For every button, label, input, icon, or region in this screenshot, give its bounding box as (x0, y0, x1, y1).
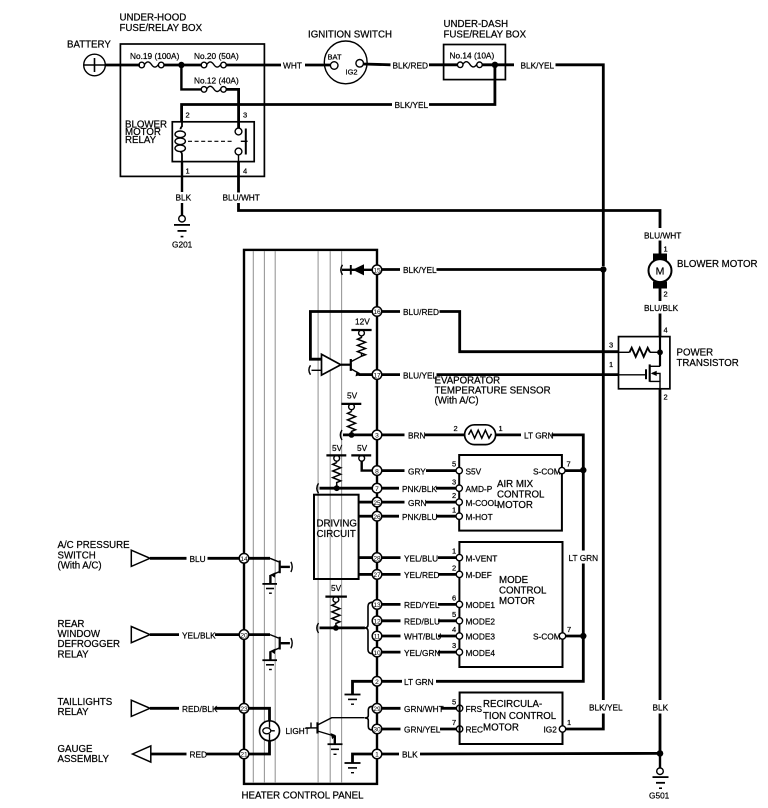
wire fuse12 to relay pin 3 (226, 89, 238, 128)
svg-text:5V: 5V (347, 391, 358, 401)
svg-text:FUSE/RELAY BOX: FUSE/RELAY BOX (444, 30, 527, 41)
svg-text:POWER: POWER (677, 348, 714, 359)
resistor Rmode (332, 604, 340, 628)
wire pin2 to ground (353, 681, 373, 694)
svg-text:BLK: BLK (176, 193, 192, 203)
wire battery to under-hood box (105, 64, 140, 67)
wire GRY pin8 to S5V (382, 466, 457, 476)
svg-text:No.14 (10A): No.14 (10A) (450, 50, 495, 60)
wire GRN/WHT pin29 to FRS (382, 704, 457, 714)
svg-text:12V: 12V (355, 317, 370, 327)
relay dashed link (188, 140, 234, 142)
wire LT GRN vertical down (569, 470, 599, 635)
svg-text:1: 1 (499, 424, 503, 433)
svg-text:YEL/GRN: YEL/GRN (404, 648, 440, 658)
svg-text:12: 12 (373, 619, 381, 626)
svg-text:23: 23 (240, 706, 248, 713)
wire YEL/RED driving to pin27 to M-DEF (359, 570, 457, 580)
node Rmode (333, 625, 339, 631)
taillights relay label (58, 697, 113, 718)
wire LT GRN sensor to vertical (496, 431, 584, 471)
svg-text:27: 27 (373, 572, 381, 579)
svg-text:ASSEMBLY: ASSEMBLY (58, 754, 110, 765)
wire BLU/RED pin16 to power transistor pin3 (382, 307, 619, 352)
svg-text:GRY: GRY (408, 466, 426, 476)
pin 13 (372, 600, 382, 610)
heater control panel box (242, 250, 378, 802)
ground for pin 1 (345, 763, 361, 773)
svg-text:GRN: GRN (408, 498, 426, 508)
wire RED to pin 21 (151, 750, 240, 760)
svg-text:1: 1 (609, 360, 613, 369)
wire PNK/BLK pin7 to AMD-P (382, 484, 457, 494)
svg-text:PNK/BLK: PNK/BLK (402, 484, 438, 494)
svg-text:11: 11 (374, 634, 381, 641)
fuse No.12 (40A) (194, 76, 239, 93)
svg-text:RELAY: RELAY (58, 707, 90, 718)
svg-text:1: 1 (452, 505, 456, 514)
svg-text:3: 3 (243, 111, 247, 120)
svg-text:IGNITION SWITCH: IGNITION SWITCH (308, 30, 392, 41)
resistor R7 (333, 463, 341, 488)
svg-text:2: 2 (664, 393, 668, 402)
wire BLK/YEL under-dash to right vertical (482, 60, 603, 266)
svg-text:BLK: BLK (653, 703, 669, 713)
svg-text:G201: G201 (172, 240, 193, 250)
svg-text:S-COM: S-COM (533, 632, 561, 642)
svg-text:YEL/BLK: YEL/BLK (182, 630, 216, 640)
recirc pin REC (452, 718, 483, 735)
svg-text:5V: 5V (332, 443, 343, 453)
fuse No.19 (100A) (130, 51, 180, 68)
wire BLU/WHT label above blower motor (644, 231, 681, 255)
svg-text:BRN: BRN (408, 431, 426, 441)
air mix pin M-HOT (452, 505, 493, 522)
svg-text:WHT: WHT (283, 61, 302, 71)
svg-text:M-VENT: M-VENT (466, 553, 498, 563)
wire BLU/BLK motor to power transistor (644, 289, 679, 337)
svg-text:CONTROL: CONTROL (497, 490, 545, 501)
node S-COM / LT GRN vertical (580, 467, 586, 473)
svg-text:UNDER-HOOD: UNDER-HOOD (120, 13, 187, 24)
pin 8 (372, 466, 382, 476)
air mix pin M-COOL (452, 491, 499, 508)
svg-text:2: 2 (452, 491, 456, 500)
svg-text:MOTOR: MOTOR (483, 723, 519, 734)
svg-text:21: 21 (240, 752, 248, 759)
svg-text:BLU/BLK: BLU/BLK (644, 303, 679, 313)
svg-text:M: M (656, 265, 665, 277)
wire GRN/YEL pin30 to REC (382, 725, 457, 735)
light bulb (260, 721, 310, 741)
5V supply above pin 3 (341, 391, 361, 412)
svg-text:14: 14 (240, 556, 248, 563)
svg-text:TRANSISTOR: TRANSISTOR (677, 358, 739, 369)
svg-text:BLK/RED: BLK/RED (393, 60, 429, 70)
battery (67, 40, 111, 76)
bracket joining pins 13 12 11 10 (365, 602, 373, 654)
svg-text:BLK/YEL: BLK/YEL (395, 100, 429, 110)
under-dash fuse/relay box (444, 19, 527, 80)
svg-text:7: 7 (452, 718, 456, 727)
wire YEL/BLU driving to pin28 to M-VENT (359, 553, 457, 563)
node BLK/YEL junction pin15 line (600, 266, 606, 272)
svg-text:GRN/YEL: GRN/YEL (404, 725, 441, 735)
svg-text:BLU/RED: BLU/RED (403, 307, 439, 317)
mode pin S-COM (533, 625, 583, 642)
panel pin strip vertical (376, 250, 378, 784)
pin 15 (372, 265, 382, 275)
diode at pin 15 (341, 264, 373, 275)
wire BRN pin3 to sensor (382, 431, 465, 441)
wire BLK/YEL pin15 to right vertical (382, 265, 604, 275)
pin 12 (372, 616, 382, 626)
svg-text:FRS: FRS (466, 704, 483, 714)
mode control motor box (459, 542, 562, 667)
svg-text:5: 5 (452, 697, 456, 706)
svg-text:30: 30 (373, 727, 381, 734)
svg-text:BLK/YEL: BLK/YEL (589, 703, 623, 713)
svg-text:MODE4: MODE4 (466, 648, 496, 658)
mosfet inside power transistor (619, 364, 661, 388)
svg-text:3: 3 (452, 477, 456, 486)
A/C pressure switch arrow (131, 550, 150, 566)
panel hatch lines (253, 251, 341, 783)
svg-text:(With A/C): (With A/C) (435, 396, 479, 407)
ignition switch (308, 30, 392, 84)
air mix pin S5V (452, 460, 482, 477)
svg-text:AMD-P: AMD-P (466, 484, 493, 494)
svg-text:BLU/WHT: BLU/WHT (644, 231, 681, 241)
svg-text:1: 1 (567, 718, 571, 727)
node G501 junction (657, 750, 664, 757)
svg-text:TION CONTROL: TION CONTROL (483, 711, 557, 722)
svg-text:GRN/WHT: GRN/WHT (404, 704, 444, 714)
under-hood fuse/relay box (120, 13, 265, 177)
mode pin MODE1 (452, 594, 495, 611)
svg-text:UNDER-DASH: UNDER-DASH (444, 19, 509, 30)
wire YEL/GRN pin10 to MODE4 (382, 648, 457, 658)
svg-text:BLOWER MOTOR: BLOWER MOTOR (677, 259, 758, 270)
power transistor Q1 (609, 337, 739, 402)
pin 27 (372, 570, 382, 580)
svg-text:REC: REC (466, 725, 484, 735)
svg-text:13: 13 (373, 602, 381, 609)
pin 25 (372, 497, 382, 507)
wire YEL/BLK to pin 20 (150, 630, 240, 640)
svg-text:6: 6 (452, 594, 456, 603)
svg-text:16: 16 (373, 309, 381, 316)
driving circuit box (314, 495, 359, 579)
transistor Q29 inside panel (306, 718, 365, 742)
transistor Q16 (341, 354, 362, 377)
svg-text:No.12 (40A): No.12 (40A) (194, 76, 239, 86)
pin 16 (372, 307, 382, 317)
relay contact (235, 128, 248, 162)
svg-text:WHT/BLU: WHT/BLU (404, 632, 441, 642)
ground G201 (172, 215, 193, 249)
wire BLK power transistor pin2 down (653, 389, 669, 755)
svg-text:YEL/BLU: YEL/BLU (404, 553, 438, 563)
node bus junction (178, 62, 184, 68)
svg-text:IG2: IG2 (346, 68, 358, 77)
relay coil (181, 122, 183, 130)
svg-text:2: 2 (375, 679, 379, 686)
svg-text:RECIRCULA-: RECIRCULA- (483, 699, 542, 710)
5V supply above pin 7 (326, 443, 346, 463)
5V supply for mode pins (325, 583, 347, 604)
recirc pin FRS (452, 697, 483, 714)
svg-text:No.20 (50A): No.20 (50A) (194, 51, 239, 61)
svg-text:15: 15 (373, 268, 381, 275)
svg-text:7: 7 (567, 460, 571, 469)
wire light to pin21 (249, 741, 270, 754)
wire BLK pin1 to G501 (382, 750, 661, 760)
svg-text:3: 3 (452, 641, 456, 650)
ground G501 (649, 768, 670, 801)
pin 21 (239, 749, 249, 759)
pin 2 (372, 677, 382, 687)
svg-text:BLU/YEL: BLU/YEL (403, 370, 438, 380)
svg-text:LT GRN: LT GRN (524, 431, 554, 441)
wire to pin 7 with continuation curl (317, 483, 373, 493)
pin 3 (372, 430, 382, 440)
fuse No.20 (50A) (194, 51, 239, 68)
svg-text:BLK/YEL: BLK/YEL (403, 265, 437, 275)
wire PNK/BLU driving to pin26 to M-HOT (359, 512, 456, 522)
svg-text:4: 4 (452, 625, 456, 634)
svg-text:M-COOL: M-COOL (466, 498, 500, 508)
wire BLK/YEL vertical lower part (566, 270, 623, 730)
svg-text:RELAY: RELAY (125, 135, 157, 146)
svg-text:2: 2 (186, 111, 190, 120)
wire to pin 3 with continuation curl (340, 430, 372, 440)
pin 17 (372, 370, 382, 380)
rear defrogger arrow (131, 627, 150, 643)
svg-text:4: 4 (664, 326, 668, 335)
pin 26 (372, 511, 382, 521)
svg-text:BLU: BLU (190, 554, 206, 564)
svg-text:S5V: S5V (466, 466, 482, 476)
svg-text:CONTROL: CONTROL (499, 586, 547, 597)
svg-text:MODE: MODE (499, 575, 529, 586)
5V supply above pin 8 (351, 443, 372, 471)
svg-text:RED/YEL: RED/YEL (404, 600, 440, 610)
svg-text:MODE2: MODE2 (466, 617, 496, 627)
pin 23 (239, 704, 249, 714)
svg-text:26: 26 (373, 514, 381, 521)
mode pin MODE4 (452, 641, 495, 658)
evaporator temperature sensor label (435, 376, 551, 407)
svg-text:M-HOT: M-HOT (466, 512, 493, 522)
ground for Q14 (262, 575, 277, 593)
svg-text:IG2: IG2 (544, 725, 558, 735)
wire pin23 to light (249, 708, 270, 721)
blower motor relay (125, 111, 254, 176)
pin 14 (239, 554, 249, 564)
svg-text:RED/BLK: RED/BLK (182, 704, 218, 714)
wire pin16 feedback to op-amp (310, 312, 372, 360)
node R3/pin3 (349, 432, 355, 438)
wire GRN driving to pin25 to M-COOL (359, 498, 456, 508)
wire relay pin4 BLU/WHT to blower motor (223, 162, 661, 228)
svg-text:PNK/BLU: PNK/BLU (402, 512, 438, 522)
svg-text:YEL/RED: YEL/RED (404, 570, 440, 580)
svg-text:BLU/WHT: BLU/WHT (223, 193, 260, 203)
pin 11 (372, 631, 382, 641)
resistor R3 (348, 412, 356, 435)
mode pin M-DEF (452, 564, 492, 581)
svg-text:RED/BLU: RED/BLU (404, 617, 440, 627)
recirculation control motor box (460, 693, 563, 745)
taillights arrow (131, 700, 150, 716)
svg-text:BLK/YEL: BLK/YEL (521, 60, 555, 70)
svg-text:29: 29 (373, 706, 381, 713)
svg-text:MODE3: MODE3 (466, 632, 496, 642)
air mix control motor box (459, 455, 562, 531)
mode pin MODE2 (452, 610, 495, 627)
svg-text:RELAY: RELAY (58, 649, 90, 660)
wire to bracket with continuation curl (317, 623, 365, 633)
node fuse14 output (492, 62, 498, 68)
transistor Q20 inside panel (249, 635, 293, 658)
wire fuse19 to junction (164, 64, 201, 67)
svg-text:5: 5 (452, 610, 456, 619)
svg-text:BATTERY: BATTERY (67, 40, 111, 51)
gauge assembly arrow (133, 746, 151, 762)
svg-text:HEATER CONTROL PANEL: HEATER CONTROL PANEL (242, 791, 365, 802)
evaporator sensor thermistor (454, 424, 503, 444)
svg-text:2: 2 (664, 290, 668, 299)
ground for pin 2 (345, 695, 361, 705)
svg-text:10: 10 (373, 650, 381, 657)
pin 1 (372, 749, 382, 759)
bracket joining pins 29 30 (365, 706, 372, 730)
svg-text:AIR MIX: AIR MIX (497, 479, 534, 490)
svg-text:M-DEF: M-DEF (466, 570, 492, 580)
ground for Q20 (262, 651, 277, 669)
svg-text:1: 1 (375, 752, 379, 759)
svg-text:FUSE/RELAY BOX: FUSE/RELAY BOX (120, 23, 203, 34)
ground for Q29 (328, 736, 343, 754)
mode pin MODE3 (452, 625, 495, 642)
svg-text:BAT: BAT (328, 53, 342, 62)
pin 7 (372, 483, 382, 493)
resistor R16 (358, 338, 366, 357)
svg-text:8: 8 (375, 468, 379, 475)
svg-text:7: 7 (567, 625, 571, 634)
wire BLK vertical to ground (659, 753, 661, 768)
svg-text:S-COM: S-COM (533, 466, 561, 476)
pin 29 (372, 704, 382, 714)
pin 30 (372, 724, 382, 734)
air mix pin AMD-P (452, 477, 493, 494)
svg-text:LT GRN: LT GRN (404, 677, 434, 687)
svg-text:28: 28 (373, 555, 381, 562)
svg-text:17: 17 (373, 372, 381, 379)
recirc pin IG2 (544, 718, 572, 735)
mode pin M-VENT (452, 547, 497, 564)
12V supply (351, 317, 371, 339)
label LT GRN pin2 (402, 675, 436, 687)
resistor inside power transistor (619, 337, 663, 367)
svg-text:MODE1: MODE1 (466, 600, 496, 610)
wire RED/BLK to pin 23 (150, 704, 240, 714)
svg-text:1: 1 (452, 547, 456, 556)
node mode S-COM / LT GRN (580, 633, 586, 639)
svg-text:RED: RED (190, 750, 208, 760)
wire WHT fuse20 to ignition switch (226, 61, 330, 71)
svg-text:1: 1 (664, 245, 668, 254)
wire emitter to pin 17 (359, 373, 373, 376)
svg-text:7: 7 (375, 486, 379, 493)
pin 10 (372, 647, 382, 657)
wire RED/BLU pin12 to MODE2 (382, 617, 457, 627)
air mix pin S-COM (533, 460, 583, 477)
svg-text:MOTOR: MOTOR (499, 596, 535, 607)
svg-text:LT GRN: LT GRN (569, 553, 599, 563)
wire WHT/BLU pin11 to MODE3 (382, 632, 457, 642)
wire to fuse No.12 (181, 65, 201, 89)
node R7/pin7 (334, 485, 340, 491)
svg-text:2: 2 (454, 424, 458, 433)
blower motor M1 (649, 254, 758, 289)
wire BLK/RED ignition to under-dash box (364, 60, 458, 70)
gauge assembly label (58, 744, 110, 765)
wire LT GRN vertical to pin 2 (382, 636, 584, 681)
svg-text:4: 4 (243, 167, 247, 176)
wire relay pin1 BLK (176, 162, 192, 216)
pin 20 (239, 630, 249, 640)
svg-text:5: 5 (452, 460, 456, 469)
svg-text:(With A/C): (With A/C) (58, 561, 102, 572)
svg-text:CIRCUIT: CIRCUIT (317, 529, 356, 540)
wire BLU to pin 14 (150, 554, 240, 564)
svg-text:2: 2 (452, 564, 456, 573)
wire RED/YEL pin13 to MODE1 (382, 600, 457, 610)
svg-text:25: 25 (373, 500, 381, 507)
rear window defrogger relay label (58, 619, 120, 661)
transistor Q14 inside panel (249, 558, 293, 581)
svg-text:G501: G501 (649, 791, 670, 801)
svg-text:BLK: BLK (402, 750, 418, 760)
svg-text:1: 1 (186, 167, 190, 176)
svg-text:5V: 5V (331, 583, 342, 593)
svg-text:MOTOR: MOTOR (497, 500, 533, 511)
svg-text:3: 3 (609, 341, 613, 350)
fuse No.14 (10A) (450, 50, 495, 67)
op-amp U1 (309, 354, 341, 375)
svg-text:DRIVING: DRIVING (317, 519, 357, 530)
svg-text:20: 20 (240, 632, 248, 639)
svg-text:5V: 5V (357, 443, 368, 453)
A/C pressure switch label (58, 540, 131, 572)
wire BLK/YEL ignition feed to relay pin 2 (182, 65, 495, 122)
wire pin1 to ground (353, 754, 373, 763)
svg-text:No.19 (100A): No.19 (100A) (130, 51, 180, 61)
svg-text:3: 3 (375, 433, 379, 440)
wire BLU/YEL pin17 to power transistor pin1 (382, 370, 619, 380)
pin 28 (372, 553, 382, 563)
